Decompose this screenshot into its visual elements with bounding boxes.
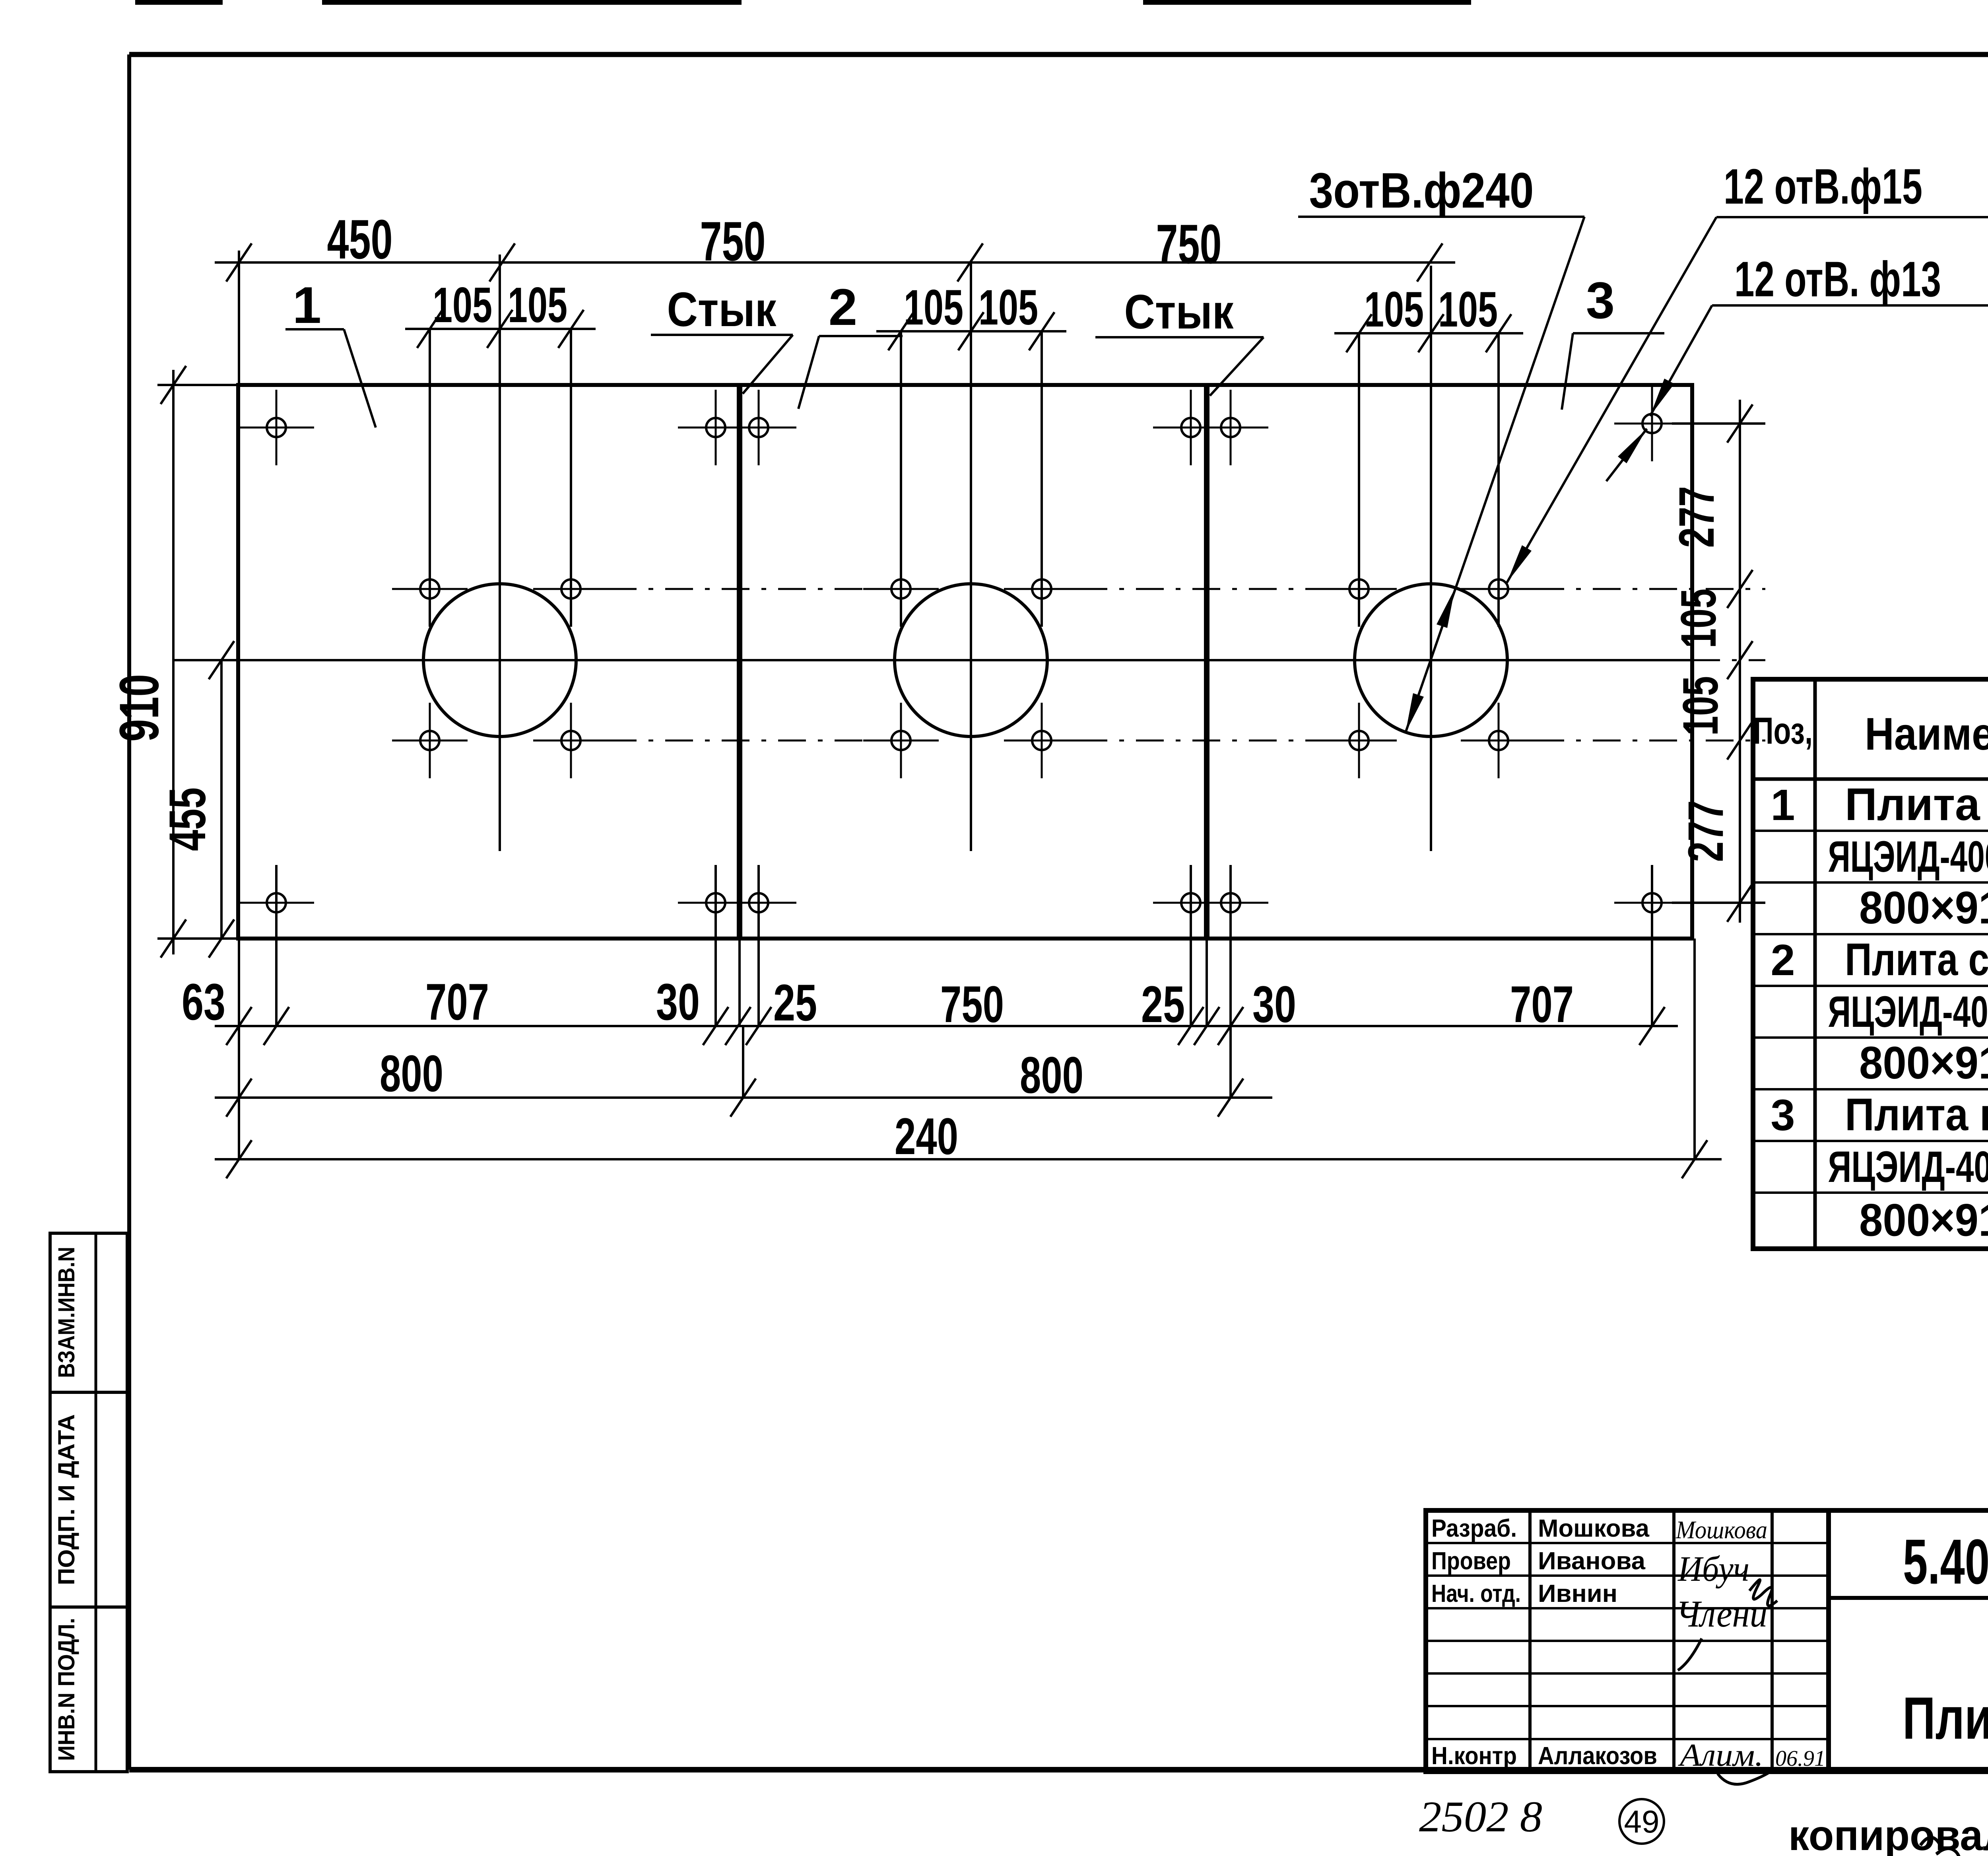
svg-text:Провер: Провер [1431,1547,1511,1575]
svg-text:Алим.: Алим. [1678,1738,1763,1773]
svg-text:Иванова: Иванова [1538,1547,1646,1575]
svg-text:Аллакозов: Аллакозов [1538,1742,1657,1770]
svg-text:Стык: Стык [1124,285,1234,339]
svg-text:30: 30 [656,973,700,1031]
svg-text:450: 450 [327,208,393,270]
svg-text:105: 105 [1671,589,1726,648]
svg-text:105: 105 [433,278,492,333]
svg-text:105: 105 [508,278,567,333]
svg-text:3: 3 [1771,1091,1795,1140]
svg-text:Ибуч: Ибуч [1677,1549,1749,1589]
svg-text:240: 240 [895,1107,958,1165]
svg-text:707: 707 [425,973,489,1031]
svg-text:5.407-139.1-35: 5.407-139.1-35 [1903,1526,1988,1597]
svg-text:Стык: Стык [667,282,777,336]
svg-text:750: 750 [700,210,766,272]
svg-text:3: 3 [1586,271,1615,329]
svg-text:105: 105 [1364,282,1424,337]
svg-text:800×910×20: 800×910×20 [1859,1038,1988,1088]
svg-text:105: 105 [1673,676,1728,736]
svg-text:1: 1 [1771,781,1795,830]
svg-text:ЯЦЭИД-400ГОСТ4248-78: ЯЦЭИД-400ГОСТ4248-78 [1828,1143,1988,1191]
svg-text:63: 63 [182,973,225,1031]
svg-text:Ивнин: Ивнин [1538,1580,1617,1607]
svg-text:ЯЦЭИД-400 ГОСТ 4248-78: ЯЦЭИД-400 ГОСТ 4248-78 [1828,832,1988,881]
svg-text:277: 277 [1678,801,1734,862]
svg-text:2: 2 [829,278,857,336]
svg-text:Мошкова: Мошкова [1538,1515,1650,1542]
svg-text:25: 25 [1141,975,1185,1033]
svg-text:Поз,: Поз, [1753,710,1813,752]
svg-text:Плита правая: Плита правая [1845,1089,1988,1140]
svg-text:Разраб.: Разраб. [1431,1515,1517,1542]
svg-text:копировал: Барковская: копировал: Барковская [1788,1811,1988,1856]
svg-text:Н.контр: Н.контр [1431,1742,1517,1770]
svg-text:Плита средняя: Плита средняя [1845,934,1988,985]
svg-text:Мошкова: Мошкова [1675,1516,1767,1544]
svg-text:30: 30 [1252,975,1296,1033]
svg-text:Плита П10: Плита П10 [1903,1685,1988,1751]
svg-text:800×910×20: 800×910×20 [1859,1195,1988,1246]
svg-text:ЯЦЭИД-400ГОСТ 4248-78: ЯЦЭИД-400ГОСТ 4248-78 [1828,987,1988,1036]
svg-text:800: 800 [1020,1046,1083,1104]
svg-text:750: 750 [940,975,1004,1033]
svg-text:ВЗАМ.ИНВ.N: ВЗАМ.ИНВ.N [54,1247,80,1378]
svg-text:1: 1 [293,276,321,334]
svg-text:910: 910 [108,674,170,742]
svg-text:ПОДП. И ДАТА: ПОДП. И ДАТА [54,1414,80,1585]
svg-text:06.91: 06.91 [1775,1746,1825,1771]
svg-text:105: 105 [978,280,1038,335]
svg-text:750: 750 [1156,213,1222,275]
svg-text:12 отВ.ф15: 12 отВ.ф15 [1724,159,1922,214]
svg-text:Нач. отд.: Нач. отд. [1431,1580,1521,1607]
svg-text:105: 105 [1438,282,1498,337]
svg-text:455: 455 [158,787,216,851]
svg-text:105: 105 [904,280,963,335]
svg-text:800: 800 [380,1044,443,1102]
svg-text:ИНВ.N ПОДЛ.: ИНВ.N ПОДЛ. [54,1618,80,1761]
svg-text:12 отВ. ф13: 12 отВ. ф13 [1734,252,1941,307]
svg-text:Плита левая: Плита левая [1845,779,1988,830]
svg-text:277: 277 [1669,486,1724,548]
svg-text:707: 707 [1510,975,1574,1033]
svg-text:25: 25 [773,974,817,1032]
svg-text:3отВ.ф240: 3отВ.ф240 [1309,163,1534,218]
svg-text:Наименование: Наименование [1865,709,1988,760]
svg-text:800×910×20: 800×910×20 [1859,882,1988,933]
svg-text:49: 49 [1624,1804,1660,1839]
svg-text:2: 2 [1771,936,1795,985]
svg-text:2502 8: 2502 8 [1419,1792,1542,1841]
